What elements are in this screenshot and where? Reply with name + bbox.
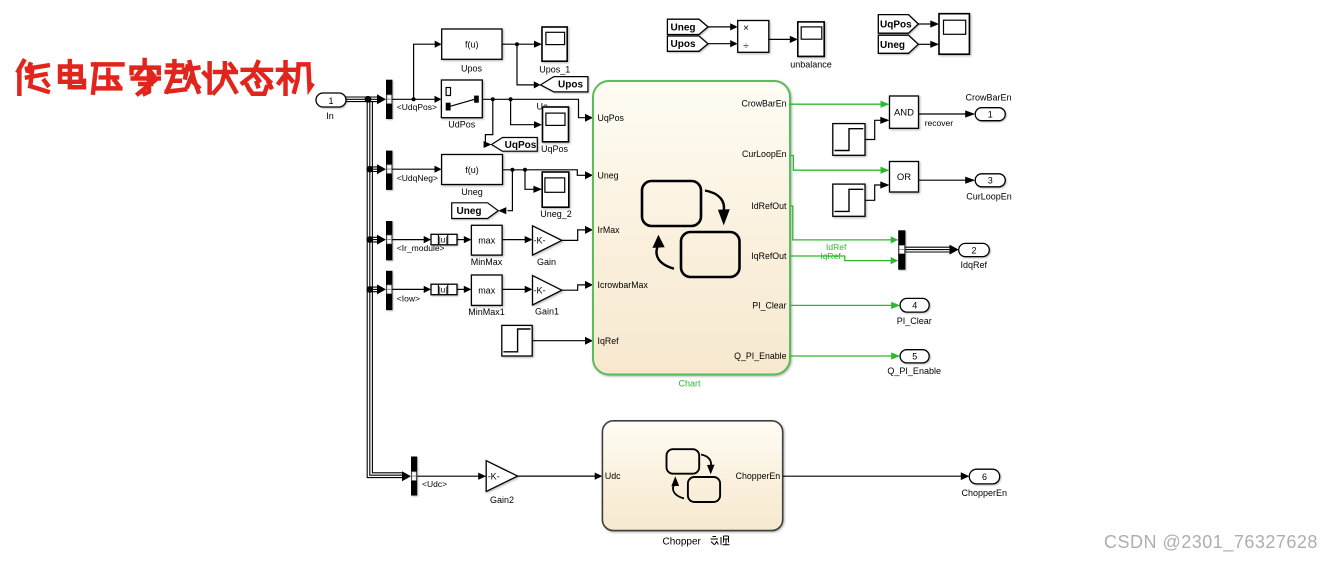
svg-text:-K-: -K- (534, 285, 546, 295)
wire Gain to chart IrMax (562, 230, 586, 241)
svg-text:<UdqPos>: <UdqPos> (397, 102, 437, 112)
svg-text:<Iow>: <Iow> (397, 293, 420, 303)
wire step1 to AND (865, 120, 881, 139)
goto tag Upos (541, 77, 588, 92)
wire Upos out to scope Upos_1 (502, 43, 535, 45)
svg-text:OR: OR (897, 172, 911, 183)
title 低电压穿越状态机 (red heading, drawn strokes) (18, 60, 311, 94)
scope UqPos/Uneg (2 input) (939, 14, 969, 55)
wire step2 to OR (865, 185, 881, 200)
svg-text:IdRefOut: IdRefOut (751, 201, 787, 211)
bus selector 3 Ir_module (386, 221, 392, 260)
svg-text:-K-: -K- (488, 471, 500, 481)
svg-text:UqPos: UqPos (505, 140, 537, 151)
junction main bus (365, 96, 372, 103)
svg-text:Gain: Gain (537, 257, 556, 267)
manual switch UdPos (441, 80, 482, 118)
svg-text:Chart: Chart (678, 379, 701, 389)
svg-text:unbalance: unbalance (790, 59, 832, 69)
from tag Uneg (top) (667, 19, 708, 34)
chart transition A to B (705, 191, 724, 213)
svg-text:Udc: Udc (605, 471, 621, 481)
chart transition B to A (656, 247, 674, 269)
svg-text:Gain2: Gain2 (490, 495, 514, 505)
svg-text:6: 6 (982, 472, 987, 482)
goto tag UqPos (492, 138, 538, 152)
svg-text:CurLoopEn: CurLoopEn (966, 191, 1012, 201)
wire branch to goto Uneg (508, 170, 513, 211)
bus selector 2 UdqNeg (386, 151, 392, 190)
wire bus branch row4 (367, 286, 374, 293)
wire Upos tag to product (708, 43, 731, 45)
svg-text:PI_Clear: PI_Clear (897, 316, 932, 326)
svg-text:IqRef: IqRef (598, 336, 620, 346)
svg-text:CSDN @2301_76327628: CSDN @2301_76327628 (1104, 532, 1318, 553)
outport 6 ChopperEn (969, 469, 999, 484)
svg-text:PI_Clear: PI_Clear (752, 301, 786, 311)
svg-text:CrowBarEn: CrowBarEn (742, 99, 787, 109)
outport 2 IdqRef (959, 243, 990, 256)
svg-text:recover: recover (925, 118, 954, 128)
svg-text:MinMax1: MinMax1 (468, 307, 505, 317)
minmax block MinMax (471, 225, 502, 255)
wire Uneg tag to scope (918, 43, 931, 45)
gain Gain (533, 226, 562, 255)
scope UqPos (543, 107, 569, 142)
wire green IdRefOut to bus creator (790, 206, 892, 240)
svg-text:IcrowbarMax: IcrowbarMax (598, 280, 649, 290)
wire step to chart IqRef (532, 340, 586, 342)
wire green Q_PI_Enable to outport 5 (790, 355, 892, 357)
wire branch to scope Uneg_2 (525, 170, 534, 190)
chopper chart block (602, 421, 782, 531)
wire Chopper to outport 6 (783, 475, 962, 477)
svg-text:|u|: |u| (439, 286, 448, 295)
wire UdPos out to chart UqPos (482, 99, 586, 117)
wire bus In to junction (346, 97, 367, 102)
wire selector4 to abs2 (392, 288, 424, 290)
wire green PI_Clear to outport 4 (790, 304, 892, 306)
svg-text:Q_PI_Enable: Q_PI_Enable (887, 366, 941, 376)
svg-text:5: 5 (912, 352, 917, 362)
outport 5 Q_PI_Enable (900, 350, 929, 363)
chart state B (681, 232, 740, 277)
chopper transition B to A (673, 486, 684, 499)
wire bus creator to outport 2 (905, 247, 950, 252)
svg-text:1: 1 (988, 110, 993, 120)
scope Upos_1 (542, 27, 567, 61)
wire vertical bus (367, 97, 402, 478)
from tag UqPos (top right) (878, 15, 918, 34)
wire green IqRefOut to bus creator (790, 256, 892, 261)
wire selector2 to f(u) Uneg (392, 168, 436, 170)
gain Gain2 (486, 461, 517, 492)
scope Uneg_2 (542, 172, 569, 207)
svg-text:÷: ÷ (743, 41, 749, 52)
svg-text:CrowBarEn: CrowBarEn (965, 93, 1011, 103)
svg-text:2: 2 (971, 245, 976, 255)
outport 3 CurLoopEn (975, 174, 1005, 187)
wire Uneg tag to product (708, 26, 731, 28)
svg-text:IqRef: IqRef (820, 251, 841, 261)
svg-text:Uneg: Uneg (457, 206, 482, 217)
wire abs1 to MinMax (457, 239, 465, 241)
wire abs2 to MinMax1 (457, 288, 465, 290)
svg-text:Uneg: Uneg (880, 40, 905, 51)
bus selector 1 UdqPos (386, 80, 392, 119)
svg-text:Upos: Upos (461, 64, 483, 74)
svg-text:UqPos: UqPos (541, 144, 569, 154)
svg-text:Uneg: Uneg (461, 187, 483, 197)
wire selector5 to Gain2 (417, 475, 479, 477)
wire green CurLoopEn to OR (790, 156, 881, 171)
svg-text:IrMax: IrMax (598, 225, 621, 235)
wire OR to outport 3 (919, 179, 967, 181)
wire selector3 to abs1 (392, 239, 424, 241)
logic AND block (890, 96, 919, 128)
svg-text:<Udc>: <Udc> (422, 479, 447, 489)
svg-text:UqPos: UqPos (598, 113, 625, 123)
junction row1 (412, 97, 416, 101)
wire Gain2 to Chopper chart (518, 475, 596, 477)
outport 1 CrowBarEn (975, 108, 1005, 121)
bus selector 4 Iow (386, 271, 392, 310)
wire bus branch row3 (367, 236, 374, 243)
wire bus arrow into selector 5 (402, 471, 411, 481)
svg-text:1: 1 (328, 96, 333, 106)
svg-text:ChopperEn: ChopperEn (962, 488, 1008, 498)
svg-text:f(u): f(u) (465, 165, 479, 175)
svg-text:max: max (478, 235, 496, 245)
gain Gain1 (533, 276, 562, 305)
wire branch to goto UqPos (485, 99, 492, 142)
svg-text:Q_PI_Enable: Q_PI_Enable (734, 351, 786, 361)
wire branch down to goto Upos (517, 44, 535, 85)
from tag Uneg (top right) (878, 35, 918, 53)
chopper transition A to B (701, 455, 711, 467)
svg-text:IqRefOut: IqRefOut (751, 251, 787, 261)
svg-text:-K-: -K- (534, 236, 546, 246)
svg-text:f(u): f(u) (465, 39, 479, 49)
svg-text:MinMax: MinMax (471, 257, 503, 267)
svg-text:IdqRef: IdqRef (961, 260, 988, 270)
goto tag Uneg (mirrored) (452, 203, 499, 219)
svg-text:In: In (326, 111, 334, 121)
svg-text:Gain1: Gain1 (535, 307, 559, 317)
svg-text:|u|: |u| (439, 236, 448, 245)
svg-text:Upos_1: Upos_1 (539, 64, 570, 74)
logic OR block (890, 162, 919, 193)
scope unbalance (798, 22, 824, 57)
minmax block MinMax1 (471, 275, 502, 305)
svg-text:Upos: Upos (558, 80, 583, 91)
wire UqPos tag to scope (918, 23, 931, 25)
fcn block Upos f(u) (442, 29, 502, 59)
svg-text:Uneg: Uneg (598, 171, 619, 181)
svg-text:AND: AND (894, 107, 914, 118)
step block recover1 (833, 124, 865, 156)
svg-text:ChopperEn: ChopperEn (736, 471, 781, 481)
wire AND to outport 1 (919, 113, 967, 115)
chopper state A (667, 449, 700, 474)
wire Gain1 to chart IcrowbarMax (562, 285, 586, 290)
svg-text:max: max (478, 285, 496, 295)
wire bus branch row2 (367, 166, 374, 173)
wire branch to scope UqPos (511, 99, 535, 124)
step block recover2 (833, 184, 865, 216)
chart state A (642, 181, 701, 226)
svg-text:UqPos: UqPos (880, 19, 912, 30)
wire MinMax1 to Gain1 (502, 288, 525, 290)
wire bus to selector 1 (368, 97, 378, 102)
outport 4 PI_Clear (900, 298, 929, 312)
bus selector 5 Udc (411, 457, 417, 496)
svg-text:CurLoopEn: CurLoopEn (742, 149, 787, 159)
inport 1 In (316, 93, 346, 107)
abs block |u| row4 (431, 284, 457, 295)
svg-text:Uneg_2: Uneg_2 (540, 209, 572, 219)
svg-text:<UdqNeg>: <UdqNeg> (397, 173, 438, 183)
bus creator IdqRef (898, 230, 905, 269)
svg-text:3: 3 (988, 176, 993, 186)
svg-text:Uneg: Uneg (671, 22, 696, 33)
svg-text:Chopper: Chopper (663, 537, 702, 548)
svg-text:Upos: Upos (671, 39, 696, 50)
wire green CrowBarEn to AND (790, 103, 881, 105)
wire MinMax to Gain (502, 239, 525, 241)
wire selector1 to UdPos (392, 98, 436, 100)
svg-text:UdPos: UdPos (448, 119, 476, 129)
chart block (Stateflow) (593, 81, 790, 375)
step block (IqRef source) (502, 325, 532, 356)
from tag Upos (top) (667, 36, 708, 51)
wire Uneg out to chart Uneg (503, 170, 587, 176)
wire product to scope unbalance (769, 38, 791, 40)
abs block |u| row3 (431, 234, 457, 245)
svg-text:4: 4 (912, 301, 917, 311)
svg-text:×: × (743, 23, 749, 34)
wire branch up to f(u) Upos (414, 44, 436, 99)
chopper state B (688, 477, 720, 502)
fcn block Uneg f(u) (442, 155, 503, 185)
product divide block (738, 21, 769, 53)
